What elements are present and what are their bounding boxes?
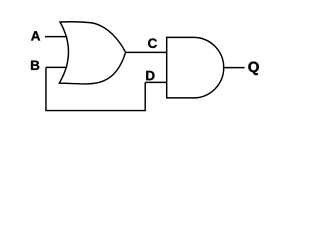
wire A input (45, 36, 67, 38)
wire B to D routing (46, 67, 145, 110)
wire output Q (224, 67, 244, 69)
or-gate U1 (59, 22, 125, 84)
label C (148, 38, 157, 48)
wire B input (46, 66, 67, 68)
label B (31, 61, 39, 70)
label A (31, 31, 40, 40)
label Q (248, 62, 258, 75)
wire node C (126, 51, 167, 53)
wire node D (145, 81, 167, 83)
and-gate U2 (167, 37, 224, 98)
label D (146, 71, 154, 80)
